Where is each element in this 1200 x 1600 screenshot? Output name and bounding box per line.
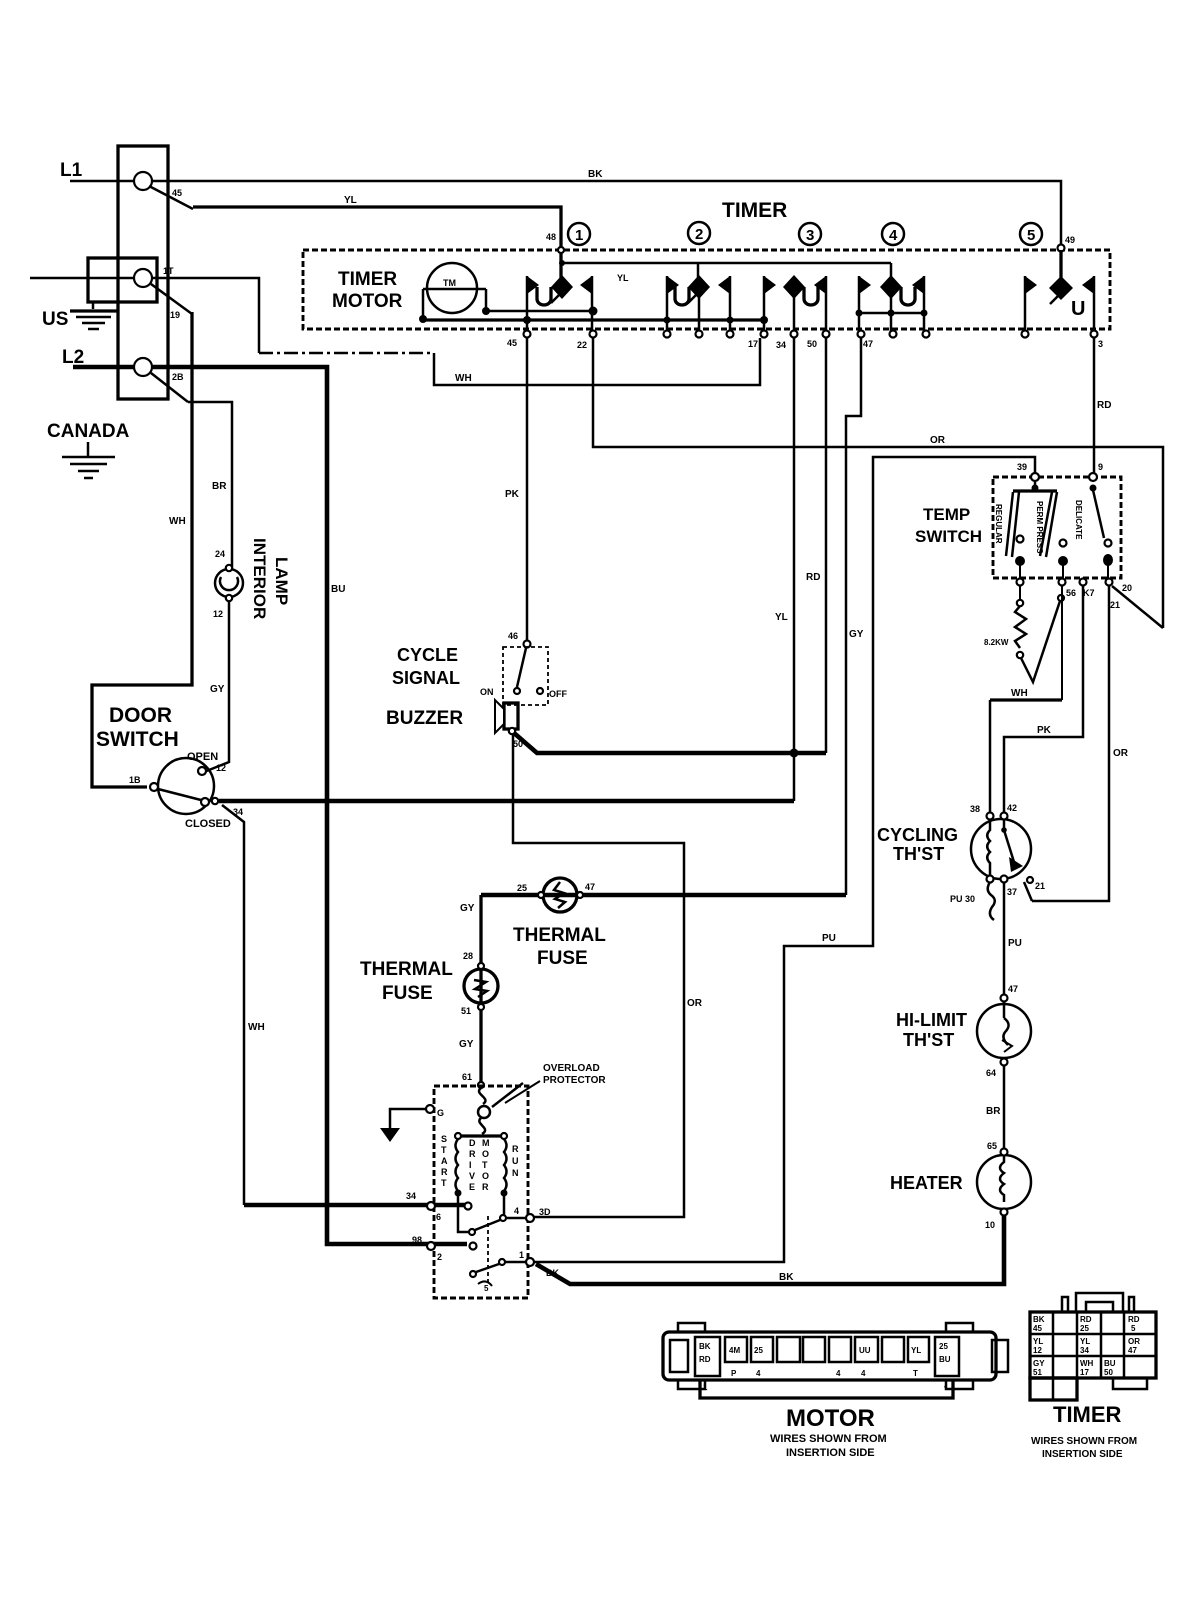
svg-text:25: 25 bbox=[517, 883, 527, 893]
motor terminal 2 bbox=[427, 1242, 477, 1262]
svg-text:PERM PRESS: PERM PRESS bbox=[1035, 501, 1044, 554]
svg-text:47: 47 bbox=[1008, 984, 1018, 994]
svg-text:45: 45 bbox=[507, 338, 517, 348]
svg-text:MOTOR: MOTOR bbox=[786, 1405, 875, 1432]
svg-text:O: O bbox=[482, 1149, 489, 1159]
label RUN bbox=[512, 1144, 519, 1178]
svg-text:34: 34 bbox=[776, 340, 786, 350]
svg-text:R: R bbox=[512, 1144, 519, 1154]
wire 1T stub left bbox=[30, 277, 134, 280]
svg-text:61: 61 bbox=[462, 1072, 472, 1082]
centrifugal run switch bbox=[470, 1259, 505, 1293]
svg-text:24: 24 bbox=[215, 549, 225, 559]
svg-text:DELICATE: DELICATE bbox=[1074, 500, 1083, 540]
svg-text:CLOSED: CLOSED bbox=[185, 818, 231, 830]
svg-text:HI-LIMIT: HI-LIMIT bbox=[896, 1010, 967, 1030]
svg-text:WH: WH bbox=[1080, 1359, 1094, 1368]
svg-text:RD: RD bbox=[1080, 1315, 1092, 1324]
timer switch SW5 bbox=[1025, 250, 1094, 331]
temp switch bottom terminals bbox=[1017, 565, 1113, 586]
interior lamp bbox=[215, 565, 243, 601]
motor ground G bbox=[380, 1105, 444, 1142]
svg-text:PK: PK bbox=[505, 489, 520, 500]
wire timer motor bus lower bbox=[423, 318, 764, 321]
svg-text:49: 49 bbox=[1065, 235, 1075, 245]
svg-text:HEATER: HEATER bbox=[890, 1173, 963, 1193]
svg-text:BU: BU bbox=[331, 584, 345, 595]
temp switch terminal 9 bbox=[1089, 473, 1097, 481]
svg-text:1: 1 bbox=[519, 1250, 524, 1260]
svg-text:A: A bbox=[441, 1156, 448, 1166]
svg-text:E: E bbox=[469, 1182, 475, 1192]
wire YL timer 34 to door switch bbox=[793, 338, 796, 801]
svg-text:12: 12 bbox=[213, 609, 223, 619]
wire timer motor bus upper bbox=[486, 310, 593, 313]
svg-text:P: P bbox=[731, 1369, 737, 1378]
terminal 1T bbox=[134, 269, 152, 287]
svg-text:98: 98 bbox=[412, 1235, 422, 1245]
svg-text:3D: 3D bbox=[539, 1207, 551, 1217]
wire OR timer 22 to temp switch 20 bbox=[593, 338, 1163, 628]
svg-text:47: 47 bbox=[1128, 1346, 1137, 1355]
motor connector plug bbox=[663, 1323, 1008, 1398]
label CYCLING TH'ST bbox=[877, 825, 958, 864]
svg-text:T: T bbox=[441, 1145, 447, 1155]
svg-text:2B: 2B bbox=[172, 372, 184, 382]
svg-text:PROTECTOR: PROTECTOR bbox=[543, 1075, 606, 1086]
wire BR to interior lamp bbox=[188, 402, 232, 567]
svg-text:FUSE: FUSE bbox=[382, 983, 433, 1004]
svg-text:TH'ST: TH'ST bbox=[903, 1030, 954, 1050]
svg-text:19: 19 bbox=[170, 310, 180, 320]
svg-text:TH'ST: TH'ST bbox=[893, 844, 944, 864]
svg-text:YL: YL bbox=[1033, 1337, 1043, 1346]
timer motor TM bbox=[423, 263, 486, 318]
svg-text:SWITCH: SWITCH bbox=[96, 728, 179, 751]
svg-text:4: 4 bbox=[861, 1369, 866, 1378]
wire L1 stub bbox=[70, 180, 134, 183]
svg-text:I: I bbox=[469, 1160, 472, 1170]
svg-text:BK: BK bbox=[1033, 1315, 1045, 1324]
svg-text:1B: 1B bbox=[129, 775, 141, 785]
svg-text:42: 42 bbox=[1007, 803, 1017, 813]
svg-text:BK: BK bbox=[699, 1342, 711, 1351]
wire YL inner bus bbox=[562, 262, 891, 265]
svg-text:2: 2 bbox=[695, 226, 703, 243]
svg-text:G: G bbox=[437, 1108, 444, 1118]
svg-text:DOOR: DOOR bbox=[109, 704, 172, 727]
svg-text:12: 12 bbox=[216, 763, 226, 773]
svg-text:64: 64 bbox=[986, 1068, 996, 1078]
svg-text:1: 1 bbox=[703, 1383, 708, 1392]
label TIMER MOTOR bbox=[332, 269, 403, 312]
svg-text:20: 20 bbox=[1122, 583, 1132, 593]
timer cam 4 number bbox=[882, 223, 904, 245]
wire RD timer 50 to buzzer line bbox=[825, 338, 828, 753]
svg-text:17: 17 bbox=[1080, 1368, 1089, 1377]
svg-text:GY: GY bbox=[210, 684, 225, 695]
temp switch selector bar bbox=[1013, 480, 1057, 492]
svg-text:1: 1 bbox=[575, 227, 583, 244]
svg-text:50: 50 bbox=[807, 339, 817, 349]
ground CANADA bbox=[47, 421, 130, 478]
svg-text:8.2KW: 8.2KW bbox=[984, 638, 1009, 647]
wire PU cycling to hi-limit bbox=[1003, 883, 1006, 994]
resistor 8.2K bbox=[984, 586, 1026, 658]
wire L2 BU thick bbox=[73, 365, 134, 370]
thermal fuse F2 bbox=[464, 963, 498, 1010]
label temp positions bbox=[994, 500, 1083, 554]
timer cam 2 number bbox=[688, 222, 710, 244]
svg-text:BK: BK bbox=[588, 169, 603, 180]
svg-text:CYCLE: CYCLE bbox=[397, 645, 458, 665]
svg-text:47: 47 bbox=[863, 339, 873, 349]
thermal fuse F1 bbox=[538, 878, 583, 912]
label THERMAL FUSE lower bbox=[360, 959, 453, 1004]
svg-text:47: 47 bbox=[585, 882, 595, 892]
motor terminal 1 bbox=[505, 1250, 534, 1266]
svg-text:45: 45 bbox=[172, 188, 182, 198]
svg-text:YL: YL bbox=[617, 273, 629, 283]
timer cam 1 number bbox=[568, 223, 590, 245]
svg-text:RD: RD bbox=[1097, 400, 1111, 411]
label wires shown from motor bbox=[770, 1433, 887, 1459]
wire OR buzzer to motor terminal 4 bbox=[513, 734, 684, 1217]
svg-text:2: 2 bbox=[437, 1252, 442, 1262]
svg-text:OFF: OFF bbox=[549, 689, 567, 699]
svg-text:O: O bbox=[482, 1171, 489, 1181]
svg-text:34: 34 bbox=[1080, 1346, 1089, 1355]
svg-text:N: N bbox=[512, 1168, 519, 1178]
wire 2B diagonal from L2 bbox=[151, 373, 188, 402]
svg-text:5: 5 bbox=[1027, 227, 1035, 244]
svg-text:THERMAL: THERMAL bbox=[360, 959, 453, 980]
svg-text:OR: OR bbox=[930, 435, 946, 446]
svg-text:50: 50 bbox=[1104, 1368, 1113, 1377]
svg-text:56: 56 bbox=[1066, 588, 1076, 598]
svg-text:S: S bbox=[441, 1134, 447, 1144]
svg-text:GY: GY bbox=[460, 903, 475, 914]
wire resistor to terminal 56 bbox=[1021, 601, 1060, 682]
svg-text:SWITCH: SWITCH bbox=[915, 527, 982, 546]
svg-text:RD: RD bbox=[1128, 1315, 1140, 1324]
temp switch lever left bbox=[1006, 492, 1025, 566]
svg-text:CANADA: CANADA bbox=[47, 421, 130, 442]
timer box bbox=[303, 250, 1110, 329]
svg-text:34: 34 bbox=[406, 1191, 416, 1201]
centrifugal linkage bbox=[487, 1216, 489, 1284]
svg-text:WIRES SHOWN FROM: WIRES SHOWN FROM bbox=[770, 1433, 887, 1445]
terminal L1 bbox=[134, 172, 152, 190]
svg-text:TIMER: TIMER bbox=[722, 199, 787, 222]
junction buzzer line and YL bbox=[790, 749, 799, 758]
wire start winding to centrifugal switch bbox=[458, 1193, 469, 1232]
ground US bbox=[42, 302, 117, 330]
motor terminal 4 bbox=[506, 1206, 551, 1222]
svg-text:BU: BU bbox=[1104, 1359, 1116, 1368]
svg-text:BU: BU bbox=[939, 1355, 951, 1364]
wire GY timer 47 to thermal fuse bbox=[846, 338, 861, 895]
svg-text:25: 25 bbox=[939, 1342, 948, 1351]
wire cycling 30 squiggle bbox=[988, 882, 995, 920]
timer connector plug bbox=[1030, 1293, 1156, 1400]
heater HTR bbox=[977, 1149, 1031, 1216]
svg-text:3: 3 bbox=[806, 227, 814, 244]
label DOOR SWITCH bbox=[96, 704, 179, 751]
svg-text:25: 25 bbox=[754, 1346, 763, 1355]
svg-text:GY: GY bbox=[849, 629, 864, 640]
svg-text:38: 38 bbox=[970, 804, 980, 814]
wire OR temp switch to cycling 21 bbox=[1032, 586, 1109, 901]
svg-text:21: 21 bbox=[1110, 600, 1120, 610]
svg-text:TIMER: TIMER bbox=[338, 269, 397, 290]
svg-text:GY: GY bbox=[1033, 1359, 1045, 1368]
hi-limit thermostat bbox=[977, 995, 1031, 1066]
wire 45 diagonal from L1 bbox=[149, 186, 193, 209]
svg-text:R: R bbox=[482, 1182, 489, 1192]
wire BR hi-limit to heater bbox=[1003, 1066, 1006, 1148]
svg-text:6: 6 bbox=[436, 1212, 441, 1222]
svg-text:3: 3 bbox=[1098, 339, 1103, 349]
svg-text:OPEN: OPEN bbox=[187, 751, 218, 763]
wire WH door to motor terminal 6 bbox=[222, 805, 244, 1205]
svg-text:4: 4 bbox=[889, 227, 898, 244]
svg-text:22: 22 bbox=[577, 340, 587, 350]
svg-text:MOTOR: MOTOR bbox=[332, 291, 403, 312]
svg-text:YL: YL bbox=[775, 612, 788, 623]
svg-text:V: V bbox=[469, 1171, 475, 1181]
buzzer BZ1 bbox=[495, 700, 518, 734]
svg-text:YL: YL bbox=[1080, 1337, 1090, 1346]
svg-text:SIGNAL: SIGNAL bbox=[392, 668, 460, 688]
door switch S1 bbox=[150, 758, 218, 814]
temp switch box bbox=[993, 477, 1121, 578]
svg-text:TIMER: TIMER bbox=[1053, 1402, 1122, 1427]
svg-text:PK: PK bbox=[1037, 725, 1052, 736]
buzzer switch bbox=[503, 641, 548, 706]
wire BK motor 1 to heater bbox=[536, 1216, 1004, 1284]
svg-text:WH: WH bbox=[169, 516, 186, 527]
svg-text:TM: TM bbox=[443, 278, 456, 288]
svg-text:WH: WH bbox=[455, 373, 472, 384]
svg-text:9: 9 bbox=[1098, 462, 1103, 472]
timer cam 3 number bbox=[799, 223, 821, 245]
svg-text:OR: OR bbox=[687, 998, 703, 1009]
timer switch SW1 bbox=[527, 275, 592, 331]
svg-text:US: US bbox=[42, 309, 68, 330]
svg-text:10: 10 bbox=[985, 1220, 995, 1230]
svg-text:INTERIOR: INTERIOR bbox=[250, 538, 269, 619]
svg-text:GY: GY bbox=[459, 1039, 474, 1050]
svg-text:37: 37 bbox=[1007, 887, 1017, 897]
svg-text:OR: OR bbox=[1113, 748, 1129, 759]
junction dots timer buses bbox=[419, 307, 768, 325]
svg-text:39: 39 bbox=[1017, 462, 1027, 472]
overload protector OL1 bbox=[478, 1083, 523, 1134]
svg-text:65: 65 bbox=[987, 1141, 997, 1151]
timer bottom pins bbox=[524, 331, 1098, 338]
svg-text:12: 12 bbox=[1033, 1346, 1042, 1355]
svg-text:INSERTION SIDE: INSERTION SIDE bbox=[1042, 1449, 1123, 1460]
label OVERLOAD PROTECTOR bbox=[505, 1063, 606, 1103]
svg-text:17: 17 bbox=[748, 339, 758, 349]
svg-text:BR: BR bbox=[986, 1106, 1001, 1117]
svg-text:R: R bbox=[441, 1167, 448, 1177]
motor terminal 6 bbox=[427, 1202, 472, 1222]
svg-text:UU: UU bbox=[859, 1346, 871, 1355]
svg-text:45: 45 bbox=[1033, 1324, 1042, 1333]
svg-text:INSERTION SIDE: INSERTION SIDE bbox=[786, 1447, 875, 1459]
svg-text:4: 4 bbox=[836, 1369, 841, 1378]
terminal L2 bbox=[134, 358, 152, 376]
svg-text:R: R bbox=[469, 1149, 476, 1159]
wire 20 diagonal to OR bbox=[1112, 586, 1163, 628]
svg-text:LAMP: LAMP bbox=[272, 557, 291, 605]
label wires shown from timer bbox=[1031, 1436, 1137, 1460]
motor start winding bbox=[455, 1139, 462, 1197]
motor winding bar bbox=[455, 1133, 507, 1139]
label TEMP SWITCH bbox=[915, 505, 982, 546]
timer switch SW2 bbox=[667, 263, 730, 331]
wire RD timer 3 to temp switch 9 bbox=[1093, 338, 1096, 477]
svg-text:51: 51 bbox=[461, 1006, 471, 1016]
svg-text:WIRES SHOWN FROM: WIRES SHOWN FROM bbox=[1031, 1436, 1137, 1447]
temp switch terminal 39 bbox=[1031, 473, 1039, 481]
svg-text:5: 5 bbox=[1131, 1324, 1136, 1333]
svg-text:PU: PU bbox=[822, 933, 836, 944]
svg-text:CYCLING: CYCLING bbox=[877, 825, 958, 845]
svg-text:WH: WH bbox=[248, 1022, 265, 1033]
svg-text:YL: YL bbox=[344, 195, 357, 206]
svg-text:46: 46 bbox=[508, 631, 518, 641]
svg-text:U: U bbox=[512, 1156, 519, 1166]
timer pin 49 bbox=[1058, 245, 1065, 252]
svg-text:K7: K7 bbox=[1083, 588, 1095, 598]
svg-text:YL: YL bbox=[911, 1346, 921, 1355]
wire thermal fuse line to GY bbox=[481, 893, 846, 898]
wire GY lamp to door switch open bbox=[204, 601, 229, 772]
timer cam 5 number bbox=[1020, 223, 1042, 245]
label INTERIOR LAMP bbox=[250, 538, 291, 619]
svg-text:4: 4 bbox=[756, 1369, 761, 1378]
label HI-LIMIT TH'ST bbox=[896, 1010, 967, 1050]
svg-text:48: 48 bbox=[546, 232, 556, 242]
svg-text:25: 25 bbox=[1080, 1324, 1089, 1333]
svg-text:REGULAR: REGULAR bbox=[994, 504, 1003, 544]
svg-text:BK: BK bbox=[546, 1268, 559, 1278]
svg-text:4: 4 bbox=[514, 1206, 519, 1216]
wire WH temp switch to cycling thermostat bbox=[990, 586, 1062, 813]
wire PU motor 1 to temp switch 39 bbox=[534, 457, 1035, 1262]
temp switch lever right bbox=[1040, 492, 1068, 566]
wire GY thermal fuse to motor bbox=[479, 895, 482, 1084]
label CYCLE SIGNAL bbox=[392, 645, 460, 688]
label DRIVE MOTOR bbox=[469, 1138, 490, 1192]
wire YL to timer switch 1 bbox=[193, 207, 561, 278]
svg-text:OR: OR bbox=[1128, 1337, 1140, 1346]
svg-text:ON: ON bbox=[480, 687, 494, 697]
wire WH 1T to timer pin 17 dash-dot bbox=[152, 278, 259, 353]
svg-text:TEMP: TEMP bbox=[923, 505, 970, 524]
terminal block TB1 bbox=[88, 146, 168, 399]
svg-text:WH: WH bbox=[1011, 688, 1028, 699]
timer switch SW4 bbox=[856, 263, 928, 331]
wire BK L1 to timer pin 49 bbox=[152, 181, 1061, 245]
centrifugal start switch bbox=[469, 1193, 506, 1235]
wire cycling 21 diagonal bbox=[1024, 882, 1032, 901]
wire WH to door switch common bbox=[92, 312, 192, 787]
motor box bbox=[434, 1086, 528, 1298]
svg-text:5: 5 bbox=[484, 1284, 489, 1293]
svg-text:RD: RD bbox=[806, 572, 820, 583]
wire PK temp switch to cycling thermostat bbox=[1004, 586, 1083, 813]
label THERMAL FUSE upper bbox=[513, 925, 606, 969]
wire 19 diagonal from 1T bbox=[151, 284, 192, 314]
svg-text:BUZZER: BUZZER bbox=[386, 708, 463, 729]
svg-text:U: U bbox=[1071, 298, 1085, 320]
svg-text:T: T bbox=[482, 1160, 488, 1170]
svg-text:21: 21 bbox=[1035, 881, 1045, 891]
svg-text:28: 28 bbox=[463, 951, 473, 961]
svg-text:51: 51 bbox=[1033, 1368, 1042, 1377]
svg-text:1T: 1T bbox=[163, 266, 174, 276]
svg-text:THERMAL: THERMAL bbox=[513, 925, 606, 946]
temp switch lever 9 bbox=[1090, 485, 1114, 567]
svg-text:FUSE: FUSE bbox=[537, 948, 588, 969]
svg-text:BK: BK bbox=[779, 1272, 794, 1283]
motor run winding bbox=[501, 1139, 508, 1197]
svg-text:T: T bbox=[441, 1178, 447, 1188]
svg-text:PU 30: PU 30 bbox=[950, 894, 975, 904]
svg-text:4M: 4M bbox=[729, 1346, 740, 1355]
svg-text:D: D bbox=[469, 1138, 476, 1148]
wire door closed to timer pin 34 bbox=[219, 799, 794, 804]
svg-text:L1: L1 bbox=[60, 160, 83, 181]
wire buzzer to RD line bbox=[514, 733, 826, 753]
svg-text:BR: BR bbox=[212, 481, 227, 492]
svg-text:OVERLOAD: OVERLOAD bbox=[543, 1063, 600, 1074]
cycling thermostat bbox=[971, 813, 1033, 884]
svg-text:PU: PU bbox=[1008, 938, 1022, 949]
wire PK timer 45 to buzzer bbox=[526, 338, 529, 640]
svg-text:M: M bbox=[482, 1138, 490, 1148]
timer switch SW3 bbox=[764, 275, 826, 331]
svg-text:T: T bbox=[913, 1369, 918, 1378]
svg-text:RD: RD bbox=[699, 1355, 711, 1364]
